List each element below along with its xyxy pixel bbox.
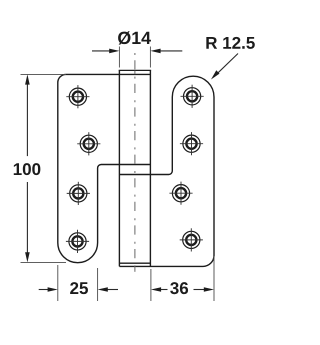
- dimension 100 top extension line: [21, 73, 67, 75]
- dimension R 12.5 text: [206, 37, 254, 49]
- screw hole L2: [77, 132, 100, 155]
- dimension 36 line left arrow: [151, 287, 168, 292]
- dimension 36 left extension line: [150, 269, 152, 301]
- dimension R 12.5 leader arrow: [211, 54, 238, 80]
- barrel top edge: [119, 69, 151, 71]
- screw hole R4: [180, 228, 203, 251]
- dimension 100 text: [14, 163, 41, 175]
- barrel left edge: [118, 70, 120, 266]
- left leaf outline: [58, 74, 151, 262]
- dimension 25 right extension line: [97, 268, 99, 301]
- dimension 25 text: [70, 282, 88, 294]
- barrel centerline: [134, 50, 136, 272]
- centerline tick through top cap: [134, 71, 136, 75]
- dimension Ø14 right arrow: [150, 49, 182, 54]
- barrel bottom cap line: [119, 262, 150, 264]
- dimension 100 line with arrows: [25, 74, 30, 262]
- dimension Ø14 left arrow: [92, 49, 119, 54]
- barrel right edge: [149, 70, 151, 266]
- dimension 36 line right arrow: [194, 287, 215, 292]
- screw hole L3: [67, 182, 90, 205]
- screw hole R2: [180, 132, 203, 155]
- screw hole L4: [66, 230, 89, 253]
- screw hole L1: [66, 85, 89, 108]
- dimension Ø14 extension line left: [118, 47, 120, 68]
- screw hole R3: [169, 182, 192, 205]
- dimension 25 right arrow: [98, 287, 118, 292]
- screw hole R1: [181, 85, 204, 108]
- dimension Ø14 extension line right: [149, 47, 151, 68]
- dimension Ø14 text: [118, 31, 151, 44]
- dimension 100 bottom extension line: [21, 261, 67, 263]
- dimension 25 left extension line: [57, 265, 59, 301]
- centerline tail below barrel: [134, 267, 136, 272]
- dimension 25 left arrow: [39, 287, 58, 292]
- dimension 36 right extension line: [213, 256, 215, 301]
- right leaf outline: [119, 76, 214, 266]
- dimension 36 text: [170, 282, 188, 294]
